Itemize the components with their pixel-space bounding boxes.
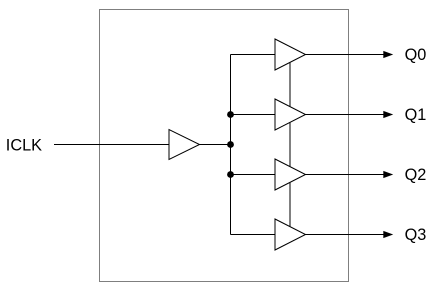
svg-text:Q0: Q0 xyxy=(405,46,427,64)
svg-text:Q3: Q3 xyxy=(405,226,427,244)
svg-text:Q2: Q2 xyxy=(405,166,427,184)
svg-text:ICLK: ICLK xyxy=(6,136,42,154)
svg-text:Q1: Q1 xyxy=(405,106,427,124)
